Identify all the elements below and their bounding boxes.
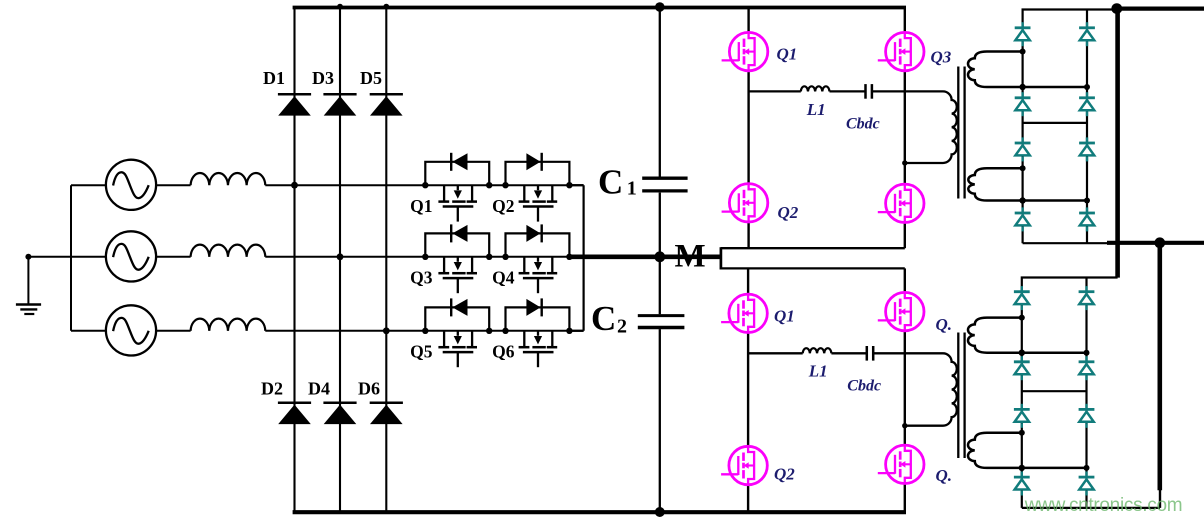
svg-text:Q2: Q2 (778, 203, 799, 222)
wire phase C to switch matrix (265, 330, 583, 332)
diode (Q4 cell) (506, 224, 570, 256)
svg-text:C: C (591, 299, 616, 338)
diode Da1 (rectifier) (1015, 22, 1031, 46)
wire D1/D2 column (293, 7, 295, 512)
svg-text:Q3: Q3 (931, 48, 952, 67)
wire phase A tail (569, 184, 584, 186)
svg-text:Q5: Q5 (410, 342, 433, 362)
transformer primary winding (902, 91, 957, 165)
wire L1 to Cbdc (831, 352, 866, 354)
MOSFET Q1 (bottom bridge) (721, 294, 795, 332)
MOSFET Q3 (top bridge) (878, 32, 952, 70)
wire bridge left leg (747, 268, 749, 512)
diode Dd1 (rectifier) (1015, 207, 1031, 231)
wire M fork bar (720, 247, 723, 269)
node output top (1111, 3, 1122, 14)
diode D2 (261, 379, 311, 425)
diode D3 (312, 68, 357, 116)
wire secondary 2 (to rectifier) (968, 433, 1087, 468)
wire ground tap (phase B left) (27, 256, 106, 258)
wire output bus A (vertical) (1115, 9, 1120, 278)
wire matrix right tie vertical (582, 185, 584, 331)
MOSFET Q4 (top bridge) (878, 184, 924, 222)
svg-text:Q.: Q. (936, 315, 953, 334)
MOSFET Q2 (492, 185, 557, 221)
wire bridge left leg (747, 7, 749, 248)
MOSFET Q1 (top bridge) (722, 32, 798, 70)
diode Db1 (rectifier) (1014, 356, 1030, 380)
svg-text:Q1: Q1 (410, 196, 432, 216)
svg-text:D3: D3 (312, 68, 334, 88)
diode Da2 (rectifier) (1079, 286, 1095, 310)
wire secondary 1 (to rectifier) (968, 318, 1087, 353)
diode D6 (358, 379, 403, 425)
capacitor Cbdc (847, 346, 881, 395)
wire rectifier mid rail (1023, 122, 1087, 124)
wire bridge mid branch (749, 90, 801, 92)
wire bridge right leg (904, 268, 906, 512)
node phase C / D5 column (383, 327, 390, 334)
wire secondary 2 (to rectifier) (968, 168, 1087, 200)
wire D5/D6 column (385, 7, 387, 512)
svg-text:D4: D4 (308, 379, 330, 399)
wire fork upper rail (top bridge -) (721, 247, 905, 249)
diode (Q6 cell) (506, 298, 570, 330)
node top bus / D3 column (337, 4, 343, 10)
diode (Q3 cell) (425, 224, 489, 256)
diode (Q5 cell) (425, 298, 489, 330)
transformer core (958, 67, 964, 199)
svg-text:Cbdc: Cbdc (847, 378, 881, 395)
wire Va left lead (71, 184, 106, 186)
wire rectifier top rail (1022, 278, 1118, 292)
wire phase A to switch matrix (265, 184, 583, 186)
diode D4 (308, 379, 357, 425)
node bottom bus / C leg (655, 507, 665, 517)
diode Db2 (rectifier) (1079, 92, 1095, 116)
inductor La (phase A) (191, 173, 266, 185)
svg-text:M: M (675, 238, 706, 274)
diode Dd2 (rectifier) (1079, 207, 1095, 231)
capacitor C1 (598, 162, 688, 201)
svg-text:2: 2 (617, 316, 627, 338)
MOSFET Q2 (top bridge) (722, 184, 799, 222)
AC source Va (106, 160, 156, 210)
wire bottom DC bus (293, 510, 906, 514)
svg-text:Q2: Q2 (774, 465, 795, 484)
svg-text:D6: D6 (358, 379, 380, 399)
diode Dd1 (rectifier) (1014, 472, 1030, 496)
wire secondary 1 (to rectifier) (968, 52, 1087, 88)
diode Da2 (rectifier) (1079, 22, 1095, 46)
wire left source bus (70, 185, 72, 331)
diode Da1 (rectifier) (1014, 286, 1030, 310)
diode D1 (263, 68, 311, 116)
node secondary taps (1019, 315, 1090, 471)
node Q4 cell corners (502, 254, 572, 260)
node top bus / C leg (655, 2, 665, 12)
svg-text:Q1: Q1 (777, 45, 798, 64)
svg-text:D2: D2 (261, 379, 283, 399)
MOSFET Q2 (bottom bridge) (721, 446, 795, 484)
wire Cbdc to right leg (873, 352, 905, 354)
MOSFET Q5 (410, 331, 477, 367)
MOSFET Q1 (410, 185, 477, 221)
capacitor Cbdc (846, 84, 880, 133)
svg-text:www.cntronics.com: www.cntronics.com (1024, 495, 1183, 516)
svg-text:Q1: Q1 (774, 307, 795, 326)
wire phase B to switch matrix (265, 256, 567, 258)
inductor L1 (803, 348, 832, 380)
diode D5 (360, 68, 403, 116)
wire top rectifier bottom rail (1023, 242, 1109, 244)
wire top DC bus (293, 6, 906, 10)
wire phase C tail (569, 330, 584, 332)
wire Vb to inductor (156, 256, 191, 258)
wire rectifier mid rail (1022, 390, 1087, 392)
inductor Lb (phase B) (191, 245, 266, 257)
wire rectifier top rail (1023, 10, 1118, 28)
AC source Vb (106, 231, 156, 281)
node Q6 cell corners (502, 328, 572, 334)
node Q2 cell corners (502, 182, 572, 188)
svg-text:L1: L1 (806, 100, 826, 119)
node Q5 cell corners (422, 328, 492, 334)
inductor L1 (801, 86, 830, 118)
svg-text:Q3: Q3 (410, 268, 433, 288)
wire Cbdc to right leg (872, 90, 905, 92)
svg-text:C: C (598, 162, 623, 201)
node secondary taps (1019, 49, 1090, 204)
wire Vc left lead (71, 330, 106, 332)
label Q4 (936, 466, 953, 485)
wire DC-link vertical (C leg) (659, 7, 661, 512)
svg-text:Q2: Q2 (492, 196, 514, 216)
node top bus / D5 column (383, 4, 389, 10)
node Q1 cell corners (422, 182, 492, 188)
MOSFET Q4 (492, 257, 557, 293)
watermark (1024, 495, 1183, 516)
MOSFET Q4 (bottom bridge) (878, 445, 924, 483)
wire L1 to Cbdc (830, 90, 866, 92)
MOSFET Q3 (410, 257, 477, 293)
wire fork lower rail (bottom bridge +) (721, 267, 905, 269)
diode Dc1 (rectifier) (1015, 137, 1031, 161)
wire Va to inductor (156, 184, 191, 186)
AC source Vc (106, 305, 156, 355)
wire rectifier col2 (1086, 10, 1088, 244)
diode (Q1 cell) (425, 153, 489, 185)
diode Dc1 (rectifier) (1014, 404, 1030, 428)
MOSFET Q6 (492, 331, 557, 367)
wire rectifier col2 (1085, 278, 1087, 508)
capacitor C2 (591, 299, 684, 338)
inductor Lc (phase C) (191, 319, 266, 331)
svg-text:D1: D1 (263, 68, 285, 88)
node Q3 cell corners (422, 254, 492, 260)
transformer core (958, 333, 964, 459)
wire bottom rectifier bottom rail (1022, 507, 1160, 509)
wire rectifier col1 (1021, 26, 1023, 244)
wire D3/D4 column (339, 7, 341, 512)
wire bridge right leg (904, 7, 906, 248)
svg-text:1: 1 (627, 178, 637, 200)
wire midpoint M (thick) (567, 254, 721, 259)
svg-text:Q6: Q6 (492, 342, 515, 362)
node output mid (1154, 237, 1165, 248)
svg-text:Cbdc: Cbdc (846, 116, 880, 133)
wire output mid rail (thick) (1107, 241, 1204, 245)
wire Vc to inductor (156, 330, 191, 332)
MOSFET Q3 (bottom bridge) (878, 292, 952, 334)
svg-text:D5: D5 (360, 68, 382, 88)
diode Dd2 (rectifier) (1079, 472, 1095, 496)
svg-text:L1: L1 (808, 362, 828, 381)
node phase A / D1 column (291, 182, 298, 189)
diode Db1 (rectifier) (1015, 92, 1031, 116)
diode Dc2 (rectifier) (1079, 404, 1095, 428)
wire output bus B (vertical) (1158, 243, 1163, 508)
wire bridge mid branch (748, 352, 803, 354)
svg-text:Q4: Q4 (492, 268, 515, 288)
node phase B / D3 column (337, 253, 344, 260)
diode Dc2 (rectifier) (1079, 137, 1095, 161)
node M (654, 238, 705, 274)
wire output top rail (thick) (1114, 7, 1204, 11)
diode Db2 (rectifier) (1079, 356, 1095, 380)
transformer primary winding (902, 353, 957, 428)
wire rectifier col1 (1021, 290, 1023, 508)
ground (16, 254, 41, 314)
svg-text:Q.: Q. (936, 466, 953, 485)
diode (Q2 cell) (506, 153, 570, 185)
